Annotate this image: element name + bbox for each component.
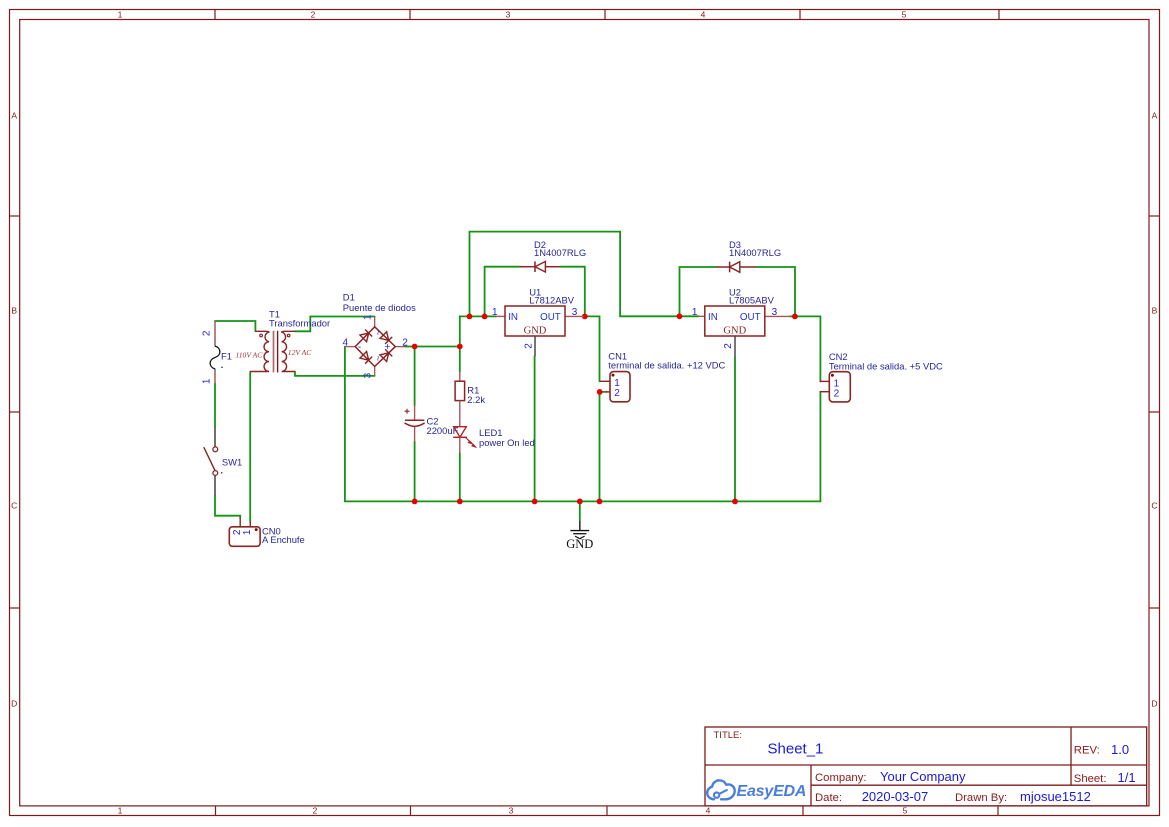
svg-text:4: 4 xyxy=(342,338,348,349)
svg-text:3: 3 xyxy=(506,9,511,19)
svg-text:IN: IN xyxy=(508,312,518,323)
svg-text:Sheet_1: Sheet_1 xyxy=(768,741,824,758)
svg-text:D: D xyxy=(1151,699,1157,709)
svg-text:L7805ABV: L7805ABV xyxy=(729,294,775,305)
svg-text:1: 1 xyxy=(242,529,253,535)
svg-text:+: + xyxy=(384,341,390,353)
svg-text:GND: GND xyxy=(723,326,746,337)
svg-text:2: 2 xyxy=(614,388,620,399)
svg-text:-: - xyxy=(358,341,362,353)
svg-text:3: 3 xyxy=(772,307,778,318)
svg-text:Puente de diodos: Puente de diodos xyxy=(343,302,416,313)
svg-text:110V AC: 110V AC xyxy=(236,350,264,359)
svg-text:3: 3 xyxy=(509,806,514,816)
svg-text:Date:: Date: xyxy=(815,792,842,804)
svg-text:3: 3 xyxy=(362,372,373,378)
svg-text:2: 2 xyxy=(311,9,316,19)
svg-text:3: 3 xyxy=(572,307,578,318)
svg-text:Drawn By:: Drawn By: xyxy=(955,792,1007,804)
svg-text:TITLE:: TITLE: xyxy=(714,730,743,741)
svg-text:C: C xyxy=(1151,501,1157,511)
svg-text:D: D xyxy=(11,699,17,709)
svg-text:A Enchufe: A Enchufe xyxy=(262,534,305,545)
svg-text:2: 2 xyxy=(402,337,408,348)
svg-text:4: 4 xyxy=(701,9,706,19)
svg-text:1: 1 xyxy=(692,307,698,318)
svg-text:2: 2 xyxy=(313,806,318,816)
svg-text:Transformador: Transformador xyxy=(269,318,330,329)
svg-text:OUT: OUT xyxy=(740,312,761,323)
svg-text:B: B xyxy=(11,306,17,316)
svg-text:1: 1 xyxy=(492,307,498,318)
svg-text:12V AC: 12V AC xyxy=(288,348,312,357)
svg-text:2: 2 xyxy=(834,388,840,399)
svg-text:IN: IN xyxy=(708,312,718,323)
svg-text:REV:: REV: xyxy=(1074,745,1100,757)
svg-text:OUT: OUT xyxy=(540,312,561,323)
svg-text:~: ~ xyxy=(373,330,383,335)
svg-text:power On led: power On led xyxy=(479,437,535,448)
svg-text:C: C xyxy=(11,501,17,511)
svg-text:Company:: Company: xyxy=(815,772,867,784)
svg-text:B: B xyxy=(1152,306,1158,316)
svg-text:5: 5 xyxy=(903,806,908,816)
svg-text:1: 1 xyxy=(201,378,212,384)
svg-text:1/1: 1/1 xyxy=(1118,770,1136,785)
svg-text:5: 5 xyxy=(902,9,907,19)
svg-text:1N4007RLG: 1N4007RLG xyxy=(729,247,781,258)
svg-text:L7812ABV: L7812ABV xyxy=(529,294,575,305)
svg-text:1: 1 xyxy=(362,314,373,320)
svg-text:Terminal de salida. +5 VDC: Terminal de salida. +5 VDC xyxy=(829,360,943,371)
svg-text:2.2k: 2.2k xyxy=(467,394,485,405)
svg-text:1N4007RLG: 1N4007RLG xyxy=(534,247,586,258)
svg-text:Your Company: Your Company xyxy=(880,769,966,784)
svg-text:2020-03-07: 2020-03-07 xyxy=(862,789,929,804)
svg-text:~: ~ xyxy=(373,356,383,361)
svg-text:GND: GND xyxy=(524,326,547,337)
svg-text:Sheet:: Sheet: xyxy=(1074,773,1107,785)
svg-text:F1: F1 xyxy=(221,351,232,362)
svg-text:GND: GND xyxy=(566,537,593,551)
svg-text:EasyEDA: EasyEDA xyxy=(737,783,807,800)
svg-text:4: 4 xyxy=(706,806,711,816)
svg-text:2: 2 xyxy=(523,343,534,349)
svg-text:1: 1 xyxy=(118,806,123,816)
svg-text:SW1: SW1 xyxy=(222,457,242,468)
svg-text:2: 2 xyxy=(723,343,734,349)
svg-text:1: 1 xyxy=(118,9,123,19)
svg-text:A: A xyxy=(11,111,17,121)
svg-text:2: 2 xyxy=(201,330,212,336)
svg-text:mjosue1512: mjosue1512 xyxy=(1020,789,1091,804)
svg-text:A: A xyxy=(1152,111,1158,121)
svg-text:1.0: 1.0 xyxy=(1111,742,1129,757)
svg-text:terminal de salida. +12 VDC: terminal de salida. +12 VDC xyxy=(608,360,725,371)
